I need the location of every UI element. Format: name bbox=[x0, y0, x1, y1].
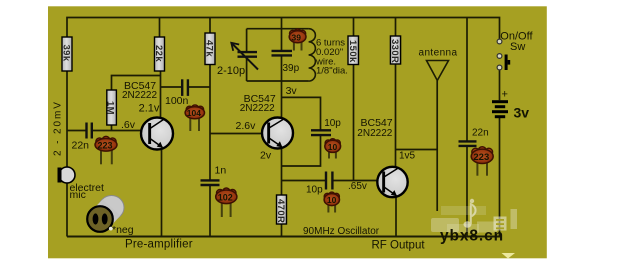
svg-text:+: + bbox=[502, 89, 508, 101]
resistor R 39k bbox=[60, 37, 72, 71]
svg-text:RF Output: RF Output bbox=[372, 240, 426, 252]
capacitor 22n mic coupling bbox=[87, 123, 92, 139]
svg-text:39k: 39k bbox=[60, 45, 71, 62]
wire Q2 emitter bbox=[281, 148, 283, 196]
transistor Q2 BC547 oscillator bbox=[262, 118, 293, 149]
wire 47k drop bbox=[209, 18, 211, 34]
svg-text:antenna: antenna bbox=[419, 48, 458, 59]
wire 22n decoupling drop bbox=[466, 18, 468, 142]
wire 470R to ground bbox=[281, 224, 283, 237]
switch On/Off bbox=[497, 39, 510, 70]
svg-text:1n: 1n bbox=[215, 165, 227, 177]
wire 10p to emitter tap bbox=[282, 135, 321, 166]
svg-text:ybx8.cn: ybx8.cn bbox=[440, 228, 504, 245]
svg-text:22n: 22n bbox=[72, 140, 90, 152]
svg-text:10: 10 bbox=[328, 142, 338, 152]
wire 22k drop bbox=[159, 18, 161, 38]
svg-text:2 - 20mV: 2 - 20mV bbox=[53, 100, 64, 156]
svg-text:100n: 100n bbox=[165, 95, 189, 107]
wire 100n link bbox=[161, 86, 183, 88]
antenna symbol bbox=[427, 61, 449, 81]
capacitor 10p top bbox=[311, 130, 331, 135]
svg-text:2N2222: 2N2222 bbox=[122, 90, 157, 101]
transistor Q1 BC547 bbox=[141, 118, 173, 150]
wire emitter to 10p2 bbox=[282, 180, 326, 182]
svg-text:3v: 3v bbox=[514, 105, 530, 121]
svg-text:2.1v: 2.1v bbox=[139, 102, 160, 114]
wire Q1 base bbox=[67, 130, 86, 132]
electret mic symbol bbox=[58, 167, 76, 183]
svg-text:.6v: .6v bbox=[121, 119, 136, 131]
wire Q2 collector bbox=[281, 81, 283, 119]
svg-text:2N2222: 2N2222 bbox=[357, 128, 392, 139]
svg-text:2v: 2v bbox=[260, 150, 272, 162]
resistor R 47k bbox=[203, 33, 215, 65]
ceramic cap photo 102 bbox=[216, 188, 237, 217]
capacitor 39p bbox=[272, 51, 293, 56]
electret mic photo bbox=[87, 196, 124, 232]
ceramic cap photo 39 trimmer bbox=[289, 29, 306, 50]
svg-text:Sw: Sw bbox=[510, 41, 525, 53]
wire 22n2 lower bbox=[466, 146, 468, 237]
wire 10p2 to Q3 base bbox=[333, 180, 384, 182]
wire tank top bbox=[247, 28, 309, 30]
wire Q1 emitter to ground bbox=[161, 148, 163, 237]
svg-text:22n: 22n bbox=[472, 128, 489, 139]
wire tank left branch bbox=[246, 29, 248, 52]
svg-text:1/8"dia.: 1/8"dia. bbox=[316, 66, 348, 77]
svg-text:1v5: 1v5 bbox=[399, 151, 416, 162]
svg-text:90MHz Oscillator: 90MHz Oscillator bbox=[303, 226, 380, 237]
capacitor 1n bbox=[201, 180, 220, 185]
ceramic cap photo 223 output bbox=[471, 147, 493, 176]
svg-text:10p: 10p bbox=[306, 185, 323, 196]
battery 3v bbox=[492, 102, 508, 117]
resistor R 330R bbox=[389, 36, 400, 64]
wire collector to antenna bbox=[396, 149, 438, 151]
svg-text:*neg: *neg bbox=[112, 224, 134, 236]
svg-text:1M: 1M bbox=[104, 101, 115, 115]
wire tank bottom bbox=[247, 80, 309, 82]
ceramic cap photo 223 preamp bbox=[95, 136, 117, 164]
svg-text:22k: 22k bbox=[153, 45, 164, 62]
svg-text:10p: 10p bbox=[324, 118, 341, 129]
svg-text:Pre-amplifier: Pre-amplifier bbox=[125, 239, 193, 251]
transistor Q3 BC547 RF output bbox=[377, 167, 407, 197]
wire 1M top link bbox=[112, 76, 161, 91]
svg-text:39p: 39p bbox=[283, 63, 300, 74]
ground rail bbox=[67, 236, 500, 238]
capacitor 100n interstage bbox=[182, 79, 188, 96]
svg-text:3v: 3v bbox=[286, 85, 298, 97]
svg-text:102: 102 bbox=[218, 192, 233, 202]
svg-text:.65v: .65v bbox=[348, 181, 367, 192]
wire 1M bottom bbox=[111, 125, 113, 131]
svg-text:10: 10 bbox=[327, 195, 337, 205]
resistor R 470R bbox=[275, 195, 287, 224]
wire 330R to Q3 collector bbox=[395, 64, 397, 168]
svg-text:470R: 470R bbox=[275, 199, 286, 223]
svg-text:mic: mic bbox=[70, 189, 86, 201]
svg-text:330R: 330R bbox=[389, 39, 400, 63]
svg-text:223: 223 bbox=[473, 152, 489, 163]
svg-text:2.6v: 2.6v bbox=[236, 120, 257, 132]
resistor R 22k bbox=[153, 37, 165, 71]
svg-text:104: 104 bbox=[187, 108, 201, 118]
wire antenna column bbox=[436, 81, 438, 150]
capacitor variable 2-10p bbox=[231, 43, 258, 70]
wire battery column bbox=[499, 68, 501, 101]
inductor L 6 turns coil bbox=[309, 29, 316, 81]
wire Q1 collector bbox=[160, 71, 162, 119]
wire Q2 base bbox=[210, 133, 268, 135]
wire top supply rail bbox=[67, 18, 500, 42]
svg-text:2N2222: 2N2222 bbox=[240, 103, 275, 114]
wire 330R drop bbox=[395, 18, 397, 37]
wire 39p branch vertical bbox=[281, 18, 283, 51]
svg-text:2-10p: 2-10p bbox=[217, 65, 245, 77]
svg-text:150k: 150k bbox=[347, 40, 358, 63]
watermark blobs bbox=[431, 199, 517, 233]
capacitor 22n decoupling bbox=[459, 141, 477, 146]
wire 47k column down bbox=[209, 65, 211, 181]
ceramic cap photo 10 lower bbox=[324, 192, 339, 212]
wire Q3 emitter to ground bbox=[395, 196, 397, 237]
svg-text:223: 223 bbox=[98, 140, 113, 150]
wire mic input column bbox=[66, 71, 68, 168]
wire 39p lower bbox=[281, 55, 283, 81]
wire mic to ground bbox=[66, 183, 68, 237]
wire collector to 10p bbox=[282, 97, 321, 130]
svg-text:39: 39 bbox=[292, 32, 302, 42]
wire 150k column down bbox=[353, 63, 355, 181]
resistor R 1M bbox=[104, 90, 116, 125]
resistor R 150k bbox=[347, 36, 358, 65]
capacitor 10p coupling bbox=[326, 172, 332, 190]
ceramic cap photo 104 bbox=[185, 105, 204, 131]
svg-text:47k: 47k bbox=[203, 40, 214, 57]
wire 150k drop bbox=[353, 18, 355, 37]
ceramic cap photo 10 upper bbox=[325, 139, 341, 159]
watermark triangle bbox=[502, 253, 516, 259]
